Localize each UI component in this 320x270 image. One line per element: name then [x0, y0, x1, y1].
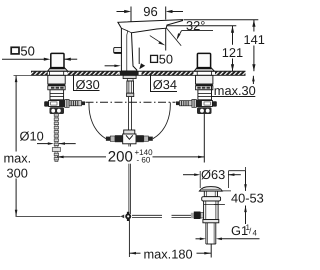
- svg-text:Ø30: Ø30: [76, 77, 100, 92]
- svg-text:Ø34: Ø34: [153, 77, 177, 92]
- svg-text:max.: max.: [4, 150, 32, 165]
- svg-text:300: 300: [7, 165, 28, 180]
- svg-text:max.30: max.30: [214, 83, 256, 98]
- svg-text:4: 4: [253, 229, 258, 238]
- svg-text:32°: 32°: [186, 18, 205, 33]
- svg-text:141: 141: [244, 32, 265, 47]
- svg-text:Ø10: Ø10: [20, 129, 44, 144]
- svg-text:200: 200: [108, 148, 133, 165]
- svg-text:- 60: - 60: [137, 156, 151, 165]
- svg-text:121: 121: [222, 45, 243, 60]
- svg-text:max.180: max.180: [144, 246, 193, 261]
- svg-text:50: 50: [159, 51, 173, 66]
- svg-text:Ø63: Ø63: [201, 167, 225, 182]
- svg-text:40-53: 40-53: [231, 191, 264, 206]
- svg-text:96: 96: [143, 4, 157, 19]
- svg-text:50: 50: [20, 43, 34, 58]
